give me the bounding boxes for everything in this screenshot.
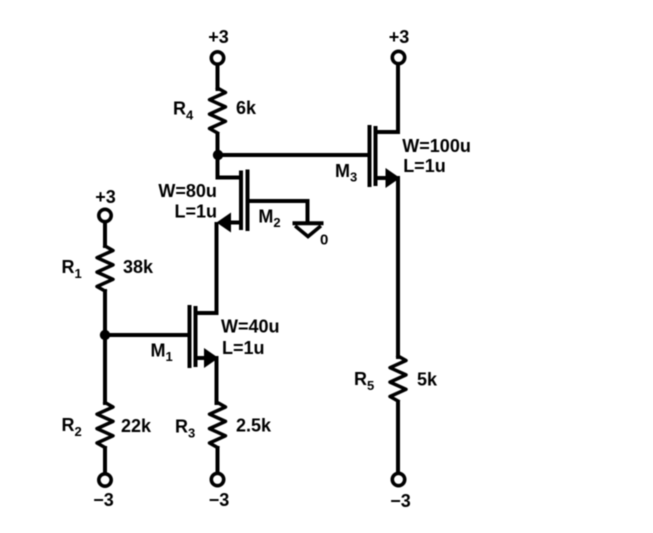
transistor M1 channel bar <box>194 308 198 365</box>
wire ground drop <box>306 201 310 222</box>
svg-text:W=80u: W=80u <box>158 181 217 201</box>
svg-text:−3: −3 <box>390 491 411 511</box>
wire R3 to middle -3 terminal <box>216 448 220 473</box>
wire right +3 to M3 drain <box>377 65 398 133</box>
transistor M2 source arrow <box>217 213 232 233</box>
transistor M2 channel bar <box>239 173 243 229</box>
wire left +3 to R1 <box>103 223 107 246</box>
wire M1 source to R3 <box>215 358 219 403</box>
resistor R2 <box>97 403 113 448</box>
transistor M1 gate bar <box>188 307 192 366</box>
transistor M2 source lead <box>228 221 240 225</box>
svg-text:L=1u: L=1u <box>175 201 218 221</box>
svg-text:2.5k: 2.5k <box>236 416 272 436</box>
svg-text:6k: 6k <box>236 98 257 118</box>
wire M3 source to R5 <box>396 178 400 357</box>
node +3 terminal middle (circle) <box>211 52 223 64</box>
node -3 terminal right (circle) <box>392 473 404 485</box>
resistor R3 <box>210 403 226 448</box>
svg-text:−3: −3 <box>209 490 230 510</box>
svg-text:38k: 38k <box>123 257 154 277</box>
svg-text:L=1u: L=1u <box>222 338 265 358</box>
svg-text:W=40u: W=40u <box>221 317 280 337</box>
svg-text:+3: +3 <box>389 27 410 47</box>
transistor M1 source arrow <box>204 348 219 368</box>
svg-text:5k: 5k <box>417 370 438 390</box>
node B junction dot <box>213 150 223 160</box>
transistor M1 drain lead <box>197 311 217 315</box>
svg-text:22k: 22k <box>121 416 152 436</box>
wire R4 to M2 drain corner <box>218 134 241 178</box>
wire middle +3 to R4 <box>216 65 220 89</box>
wire M2 source to M1 drain <box>215 224 219 313</box>
resistor R1 <box>97 246 113 291</box>
wire node B to M3 gate <box>218 153 368 157</box>
svg-text:L=1u: L=1u <box>403 156 446 176</box>
svg-text:−3: −3 <box>93 490 114 510</box>
resistor R4 <box>210 88 226 133</box>
wire R5 to right -3 terminal <box>396 402 400 473</box>
node A junction dot <box>100 330 110 340</box>
transistor M3 channel bar <box>374 128 378 184</box>
transistor M2 gate lead <box>249 199 308 203</box>
wire node A to M1 gate <box>105 333 189 337</box>
svg-text:+3: +3 <box>208 27 229 47</box>
svg-text:+3: +3 <box>95 187 116 207</box>
transistor M3 source lead <box>377 176 388 180</box>
svg-text:0: 0 <box>320 232 328 249</box>
node +3 terminal left (circle) <box>99 209 111 221</box>
transistor M3 source arrow <box>386 168 401 188</box>
node -3 terminal middle (circle) <box>211 473 223 485</box>
svg-text:W=100u: W=100u <box>402 136 471 156</box>
node +3 terminal right (circle) <box>392 51 404 63</box>
transistor M1 source lead <box>197 356 207 360</box>
resistor R5 <box>390 356 406 401</box>
node -3 terminal left (circle) <box>99 474 111 486</box>
transistor M3 gate bar <box>368 127 372 185</box>
wire R1 to R2 through node A <box>103 291 107 403</box>
ground symbol V <box>297 227 320 237</box>
transistor M2 gate bar <box>246 172 250 230</box>
wire R2 to left -3 terminal <box>103 448 107 473</box>
ground symbol bar <box>295 221 322 225</box>
